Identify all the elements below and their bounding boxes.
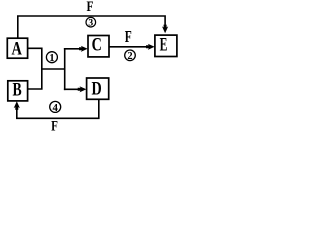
svg-text:1: 1 bbox=[49, 52, 54, 64]
wire C to E (path 2) bbox=[109, 46, 148, 48]
label F (top, path 3) bbox=[87, 0, 94, 15]
svg-text:E: E bbox=[160, 35, 168, 56]
wire splitter vertical bbox=[64, 48, 66, 90]
svg-text:F: F bbox=[125, 27, 132, 46]
wire to D bbox=[64, 88, 80, 90]
wire from A right side bbox=[28, 48, 42, 89]
svg-text:F: F bbox=[51, 119, 58, 135]
svg-text:B: B bbox=[13, 80, 22, 101]
svg-text:2: 2 bbox=[127, 51, 132, 62]
wire to C bbox=[64, 48, 81, 50]
svg-text:D: D bbox=[92, 78, 102, 99]
arrowhead into B bottom bbox=[14, 101, 20, 110]
label F (path 2) bbox=[125, 27, 132, 46]
box D bbox=[87, 78, 109, 99]
svg-text:C: C bbox=[92, 34, 102, 55]
arrowhead into C bbox=[79, 46, 88, 52]
arrowhead into E top bbox=[162, 25, 168, 34]
label circled 3 bbox=[86, 17, 96, 28]
box A bbox=[7, 38, 27, 59]
label F (path 4) bbox=[51, 119, 58, 135]
wire middle horizontal (junction to splitter) bbox=[42, 68, 65, 70]
label circled 1 bbox=[46, 52, 57, 64]
svg-text:3: 3 bbox=[88, 18, 93, 29]
wire D-bottom to B-bottom (path 4) bbox=[17, 99, 99, 118]
svg-text:A: A bbox=[12, 38, 23, 59]
svg-text:4: 4 bbox=[52, 102, 58, 114]
svg-text:F: F bbox=[87, 0, 94, 15]
box B bbox=[8, 80, 28, 101]
label circled 2 bbox=[125, 50, 136, 62]
box E bbox=[155, 35, 177, 57]
box C bbox=[88, 34, 109, 57]
wire A-top to E-top (path 3) bbox=[18, 16, 165, 38]
label circled 4 bbox=[50, 101, 61, 114]
arrowhead into D bbox=[78, 86, 87, 92]
arrowhead into E left bbox=[146, 44, 155, 50]
